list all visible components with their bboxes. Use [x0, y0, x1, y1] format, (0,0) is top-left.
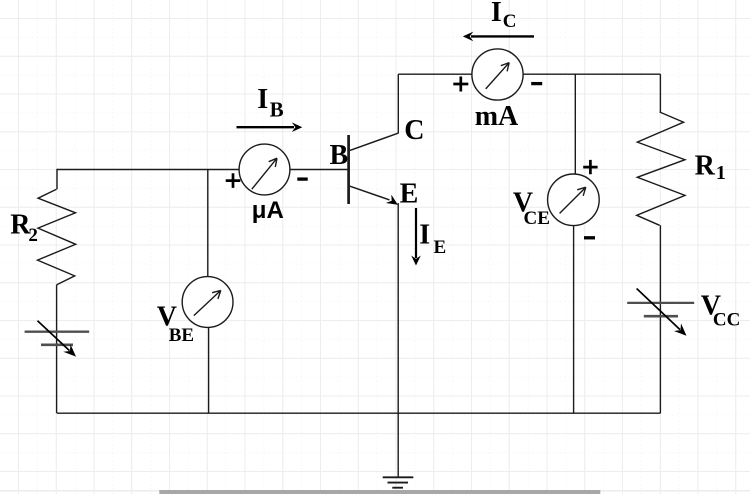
svg-text:R: R — [695, 150, 716, 181]
svg-text:B: B — [330, 140, 349, 171]
svg-text:CC: CC — [713, 310, 740, 331]
svg-text:1: 1 — [716, 162, 726, 184]
svg-text:2: 2 — [28, 225, 38, 246]
svg-text:mA: mA — [475, 101, 519, 132]
svg-text:CE: CE — [524, 208, 550, 229]
svg-text:C: C — [404, 115, 424, 146]
svg-text:BE: BE — [169, 325, 194, 346]
svg-text:μA: μA — [252, 197, 284, 224]
svg-text:I: I — [257, 84, 268, 115]
svg-text:B: B — [270, 97, 284, 121]
svg-text:C: C — [503, 11, 517, 32]
svg-text:I: I — [419, 220, 430, 251]
svg-text:E: E — [434, 237, 447, 258]
svg-text:I: I — [491, 0, 502, 28]
svg-text:E: E — [400, 179, 419, 210]
